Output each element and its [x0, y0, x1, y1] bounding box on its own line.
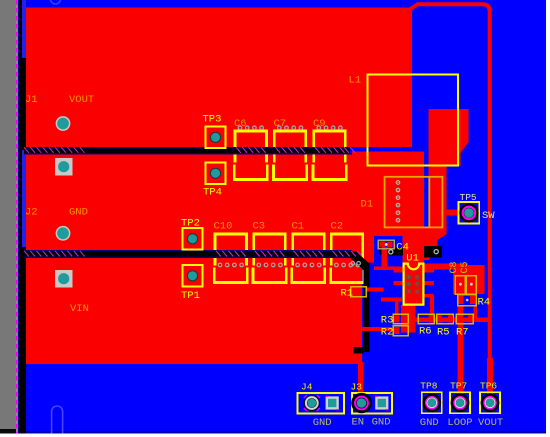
svg-text:TP1: TP1 — [181, 290, 200, 302]
svg-text:VOUT: VOUT — [478, 417, 503, 429]
svg-text:J4: J4 — [301, 381, 313, 392]
svg-text:VIN: VIN — [70, 303, 89, 315]
svg-text:TP3: TP3 — [203, 114, 222, 126]
svg-text:R5: R5 — [437, 327, 450, 339]
svg-text:R6: R6 — [419, 326, 432, 338]
svg-text:R3: R3 — [381, 315, 394, 327]
svg-text:C5: C5 — [460, 261, 471, 273]
svg-text:R7: R7 — [456, 327, 469, 339]
svg-text:TP2: TP2 — [181, 218, 200, 230]
svg-text:R1: R1 — [341, 288, 354, 300]
svg-text:C9: C9 — [313, 118, 326, 130]
svg-text:GND: GND — [69, 207, 88, 219]
svg-text:J3: J3 — [351, 381, 363, 392]
svg-text:EN: EN — [352, 417, 365, 429]
svg-text:TP8: TP8 — [420, 381, 437, 392]
svg-text:TP4: TP4 — [203, 187, 222, 199]
svg-text:C1: C1 — [292, 221, 305, 233]
svg-text:TP7: TP7 — [450, 381, 467, 392]
svg-text:GND: GND — [420, 417, 439, 429]
svg-text:R2: R2 — [381, 327, 394, 339]
svg-text:C10: C10 — [214, 221, 233, 233]
svg-text:VOUT: VOUT — [69, 94, 94, 106]
svg-text:R4: R4 — [478, 297, 491, 309]
svg-text:C7: C7 — [274, 118, 287, 130]
svg-text:GND: GND — [313, 417, 332, 429]
svg-text:L1: L1 — [349, 75, 362, 87]
svg-text:C6: C6 — [234, 118, 247, 130]
svg-text:GND: GND — [372, 417, 391, 429]
svg-text:TP6: TP6 — [480, 381, 497, 392]
svg-text:J2: J2 — [25, 207, 38, 219]
svg-text:U1: U1 — [406, 252, 419, 264]
svg-text:D1: D1 — [361, 199, 374, 211]
svg-text:J1: J1 — [25, 94, 38, 106]
svg-text:LOOP: LOOP — [447, 417, 472, 429]
svg-text:C8: C8 — [449, 261, 460, 273]
svg-text:C3: C3 — [253, 221, 266, 233]
svg-text:SW: SW — [482, 210, 495, 222]
svg-text:TP5: TP5 — [460, 192, 477, 203]
svg-text:C2: C2 — [331, 221, 344, 233]
